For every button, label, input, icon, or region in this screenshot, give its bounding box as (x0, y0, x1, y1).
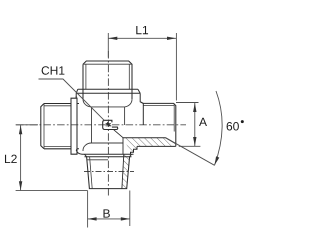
body left side (75, 96, 77, 98)
B label (103, 209, 109, 217)
top flange (76, 89, 140, 93)
B extension line right (129, 191, 131, 227)
L2 extension line top (16, 124, 38, 126)
L1 dimension line (108, 37, 176, 39)
top body sides (76, 93, 143, 103)
top port thread body (83, 61, 132, 99)
body inner face bottom edge (92, 142, 124, 144)
hex plug marker CH1 (103, 120, 118, 129)
body inner face left edge (91, 107, 93, 143)
A arrow top (193, 103, 196, 112)
B arrow right (121, 217, 130, 220)
body corner arc TL (83, 99, 92, 107)
left port thread body (41, 104, 71, 149)
A arrow bottom (193, 137, 196, 146)
body corner arc BL (83, 143, 92, 151)
B extension line left (87, 191, 89, 228)
section staircase (131, 146, 138, 154)
CH1 leader arrowhead (106, 122, 111, 126)
horizontal centerline (16, 124, 186, 126)
vertical centerline (107, 51, 109, 196)
body edges left arm (77, 104, 79, 149)
section hatch region (122, 138, 176, 189)
left flange (71, 98, 77, 154)
bottom port gauge centerline (84, 171, 134, 173)
CH1 label (42, 66, 65, 75)
section wall inner edge (122, 154, 124, 188)
L1 label (136, 26, 148, 34)
right port thread minor line (143, 105, 174, 107)
60 degree arc (215, 91, 223, 165)
bottom port inner line (86, 159, 108, 161)
L2 extension line bottom (16, 190, 88, 192)
body corner arc TR (125, 99, 132, 107)
section cut boundary diagonal (114, 130, 123, 155)
right port top edge (143, 103, 176, 146)
bottom port face chamfers (85, 154, 132, 156)
bottom port sides (87, 157, 130, 189)
L1 extension line right (175, 33, 177, 101)
A label (199, 118, 207, 126)
L1 arrow right (167, 37, 176, 40)
A dimension line (194, 103, 196, 146)
A extension line bottom (179, 145, 201, 147)
CH1 leader line (39, 79, 105, 121)
bottom port thread minor line (90, 157, 93, 189)
body inner face right edge (124, 107, 126, 125)
right port left edge (142, 103, 144, 125)
left port thread minor lines (44, 106, 71, 147)
degree dot (241, 120, 244, 123)
60 degree arrowhead (215, 156, 220, 165)
right port chamfer line (173, 103, 175, 131)
L2 arrow bottom (19, 181, 22, 190)
section band bottom edge (137, 145, 176, 147)
B dimension line (88, 218, 130, 220)
section cone seat edge (166, 138, 177, 144)
section bore line (123, 137, 166, 139)
L1 arrow left (108, 37, 117, 40)
L2 dimension line (20, 125, 22, 190)
60 degree label (227, 122, 239, 131)
top port chamfer line (83, 63, 132, 65)
L2 arrow top (19, 125, 22, 134)
A extension line top (176, 102, 199, 104)
60 degree leader line (166, 138, 215, 166)
B arrow left (88, 217, 97, 220)
bottom port face (82, 154, 134, 156)
left port chamfer line (43, 104, 45, 149)
top port thread minor lines (86, 64, 129, 89)
bottom-left skirt (76, 149, 82, 155)
right body shoulder (141, 102, 144, 103)
L1 extension line left (107, 33, 109, 58)
body inner face top edge (92, 106, 125, 108)
L2 label (5, 155, 17, 163)
